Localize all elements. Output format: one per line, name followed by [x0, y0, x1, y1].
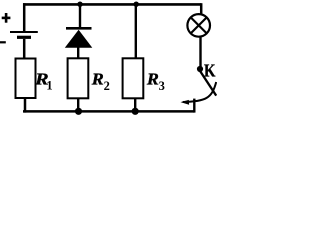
wire R3 top lead	[135, 3, 137, 59]
wire R2 bottom lead	[77, 98, 79, 113]
svg-text:3: 3	[159, 79, 165, 93]
node junction dot bottom of R3	[132, 108, 139, 115]
lamp EL1 cross	[191, 17, 207, 33]
resistor R2	[68, 58, 89, 98]
wire battery top lead	[23, 3, 26, 32]
svg-text:R: R	[91, 70, 104, 89]
node junction dot top of R3 branch	[134, 1, 139, 6]
diode VD1 cathode bar	[66, 27, 92, 30]
switch K motion arc	[183, 82, 216, 102]
wire diode to R2	[77, 47, 79, 59]
diode VD1 triangle	[65, 30, 93, 48]
battery B1 plus label	[2, 13, 11, 23]
wire switch bottom contact riser	[193, 99, 195, 113]
wire top rail	[23, 3, 201, 6]
svg-text:2: 2	[104, 79, 110, 93]
wire lamp top lead	[200, 3, 203, 14]
resistor R1	[16, 59, 36, 99]
wire R3 bottom lead	[134, 98, 136, 113]
resistor R2 label	[91, 70, 110, 93]
battery B1 minus label	[0, 41, 6, 43]
switch K contact dot	[197, 66, 203, 72]
resistor R1 label	[34, 70, 53, 93]
svg-text:K: K	[204, 60, 216, 80]
svg-text:1: 1	[46, 79, 52, 93]
battery B1 positive plate	[10, 31, 38, 33]
lamp EL1 circle	[187, 14, 210, 37]
wire bottom rail	[23, 110, 194, 113]
wire R1 bottom lead	[24, 98, 27, 113]
svg-text:R: R	[146, 70, 159, 89]
wire lamp to switch	[199, 37, 201, 68]
battery B1 negative plate	[17, 36, 31, 39]
node junction dot top of diode branch	[77, 1, 82, 6]
switch K lever	[200, 71, 216, 96]
switch K arrowhead	[181, 100, 190, 105]
resistor R3	[123, 58, 144, 98]
wire diode branch top lead	[79, 3, 81, 28]
node junction dot bottom of R2	[75, 108, 82, 115]
resistor R3 label	[146, 70, 165, 93]
wire battery bottom lead	[23, 39, 26, 59]
